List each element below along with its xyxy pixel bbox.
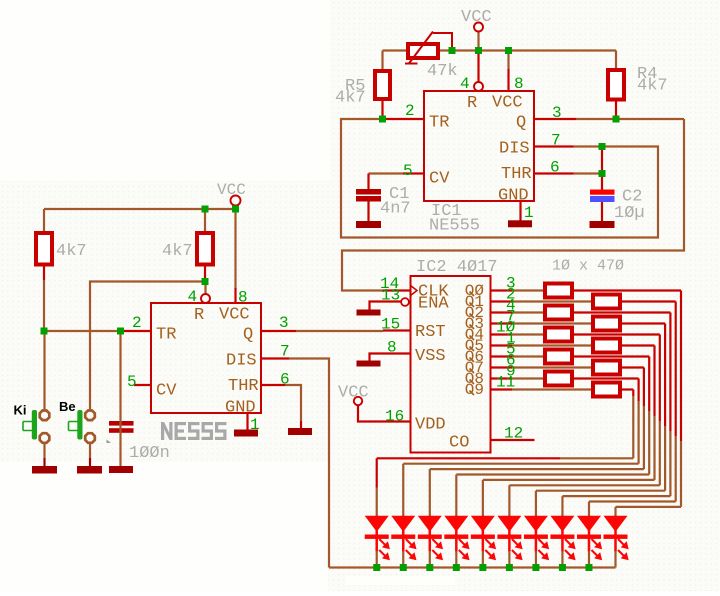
svg-text:IC2 4Ø17: IC2 4Ø17 [416,258,498,277]
svg-text:Q: Q [516,114,526,133]
svg-text:8: 8 [514,75,524,93]
svg-text:6: 6 [550,159,560,177]
svg-text:6: 6 [280,371,290,389]
svg-text:3: 3 [279,314,289,332]
svg-text:Ki: Ki [14,403,27,418]
svg-text:VDD: VDD [415,416,446,435]
svg-text:8: 8 [387,339,397,357]
svg-text:RST: RST [415,323,446,342]
svg-text:4: 4 [188,288,198,306]
svg-text:16: 16 [385,408,404,426]
svg-text:4n7: 4n7 [380,200,411,219]
svg-text:2: 2 [132,314,142,332]
svg-text:5: 5 [403,162,413,180]
svg-text:11: 11 [496,374,515,392]
svg-text:THR: THR [501,165,532,184]
svg-text:Q: Q [243,326,253,345]
svg-text:4k7: 4k7 [335,89,366,108]
svg-text:VCC: VCC [492,94,523,113]
svg-text:VCC: VCC [338,384,369,403]
svg-text:VSS: VSS [415,347,446,366]
svg-text:THR: THR [228,377,259,396]
svg-text:7: 7 [551,132,561,150]
svg-text:12: 12 [504,425,523,443]
svg-text:TR: TR [156,326,176,345]
svg-text:CV: CV [429,170,450,189]
svg-text:VCC: VCC [461,8,492,27]
svg-text:13: 13 [381,287,400,305]
svg-text:1Ø x 47Ø: 1Ø x 47Ø [552,258,624,275]
svg-text:R: R [194,306,204,325]
svg-text:NE555: NE555 [429,217,480,236]
svg-text:Be: Be [59,399,76,414]
svg-text:47k: 47k [427,62,458,81]
svg-text:1ØØn: 1ØØn [129,444,170,463]
svg-text:8: 8 [238,289,248,307]
svg-text:1Øµ: 1Øµ [614,204,645,223]
svg-text:1: 1 [250,416,260,434]
svg-text:TR: TR [429,114,449,133]
svg-text:VCC: VCC [217,181,246,199]
svg-text:DIS: DIS [499,140,530,159]
svg-text:GND: GND [498,187,529,206]
svg-text:O9: O9 [465,381,484,399]
svg-text:CV: CV [156,382,177,401]
svg-text:2: 2 [405,102,415,120]
svg-text:VCC: VCC [219,306,250,325]
svg-text:1: 1 [524,204,534,222]
svg-text:3: 3 [552,104,562,122]
svg-text:15: 15 [381,316,400,334]
svg-text:4: 4 [460,75,470,93]
svg-text:GND: GND [225,399,256,418]
svg-text:7: 7 [280,343,290,361]
svg-text:CO: CO [449,434,469,453]
svg-text:R: R [467,94,477,113]
svg-text:4k7: 4k7 [637,77,668,96]
svg-text:4k7: 4k7 [162,242,193,261]
svg-text:5: 5 [127,373,137,391]
svg-text:ENA: ENA [418,295,449,314]
svg-text:4k7: 4k7 [56,242,87,261]
svg-text:DIS: DIS [226,352,257,371]
